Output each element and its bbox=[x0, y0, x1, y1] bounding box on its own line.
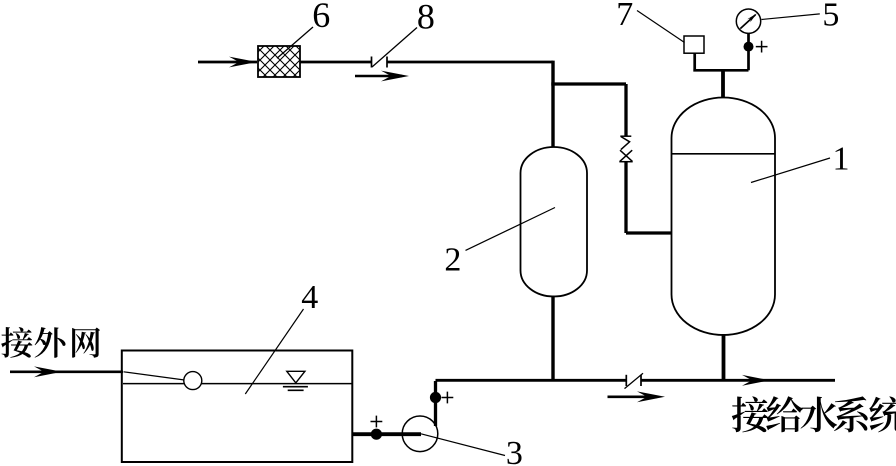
discharge valve (black dot) bbox=[430, 392, 441, 403]
tank 1 liquid level line bbox=[672, 153, 775, 155]
wire top inlet line bbox=[198, 61, 257, 64]
text label 接给水系统 bbox=[732, 396, 896, 432]
wire top manifold bbox=[693, 34, 748, 72]
wire tank 1 bottom drop bbox=[722, 334, 726, 381]
flow arrow under valve 8 bbox=[355, 75, 402, 78]
wire bottom main line (left of check valve) bbox=[436, 379, 627, 382]
svg-text:8: 8 bbox=[417, 0, 435, 37]
inlet flow arrowhead bbox=[229, 57, 257, 68]
float arm bbox=[124, 372, 185, 380]
gauge needle bbox=[740, 15, 755, 29]
flow arrow on bottom main line bbox=[742, 375, 770, 386]
svg-text:6: 6 bbox=[312, 0, 330, 35]
wire tank 1 top pipe bbox=[721, 70, 725, 100]
check valve slash bbox=[625, 373, 644, 388]
water surface line in tank 4 bbox=[123, 383, 352, 385]
gauge cock (black dot) bbox=[744, 42, 754, 52]
svg-text:2: 2 bbox=[444, 242, 461, 279]
leader line label 1 bbox=[751, 158, 830, 183]
suction valve (black dot) bbox=[371, 429, 382, 440]
wire branch to safety valve line bbox=[551, 84, 626, 136]
svg-text:7: 7 bbox=[616, 0, 633, 33]
water level mark bars bbox=[283, 387, 308, 391]
wire from filter to check valve 8 bbox=[300, 61, 371, 64]
svg-text:3: 3 bbox=[506, 435, 523, 466]
wire from valve 8 to down corner bbox=[387, 61, 553, 64]
check valve on bottom main bbox=[626, 375, 641, 386]
wire tank 4 to pump bbox=[352, 432, 421, 436]
svg-text:5: 5 bbox=[822, 0, 839, 33]
flow arrow under bottom check valve bbox=[608, 395, 658, 398]
inlet flow arrowhead (tank 4) bbox=[34, 366, 62, 377]
pressure signal box 7 bbox=[684, 36, 704, 53]
wire pump riser bbox=[434, 381, 437, 426]
leader line label 7 bbox=[637, 11, 685, 43]
wire safety valve to tank 1 left nozzle bbox=[626, 162, 672, 233]
pump 3 (circle) bbox=[402, 416, 438, 452]
plus mark at suction valve bbox=[371, 416, 383, 428]
pressure gauge 5 bbox=[736, 9, 760, 33]
safety valve (spring + seat) bbox=[619, 136, 632, 162]
float ball bbox=[184, 372, 202, 390]
tank 2 (small vessel) bbox=[521, 147, 588, 297]
leader line label 3 bbox=[421, 434, 505, 456]
text label 接外网 bbox=[1, 327, 100, 358]
wire inlet to tank 4 bbox=[10, 370, 123, 373]
plus mark at gauge cock bbox=[756, 41, 768, 53]
storage tank 4 bbox=[122, 351, 352, 463]
wire bottom main line (right of check valve) bbox=[642, 379, 836, 382]
filter F (box 6) crosshatched bbox=[258, 46, 300, 77]
leader line label 4 bbox=[245, 309, 303, 394]
svg-text:4: 4 bbox=[301, 279, 318, 316]
svg-text:1: 1 bbox=[833, 140, 850, 177]
leader line label 5 bbox=[762, 14, 820, 20]
wire tank 2 bottom drop bbox=[551, 296, 554, 382]
leader line label 2 bbox=[466, 208, 556, 251]
tank 1 (pressure vessel) bbox=[672, 98, 776, 336]
check valve 8 (break ticks) bbox=[372, 57, 388, 68]
leader line label 6 bbox=[277, 27, 313, 58]
leader line label 8 (slash through valve) bbox=[372, 28, 417, 68]
water level mark (inverted triangle) bbox=[287, 371, 305, 383]
wire vertical drop to tank 2 bbox=[551, 61, 554, 148]
plus mark at discharge valve bbox=[442, 392, 454, 404]
